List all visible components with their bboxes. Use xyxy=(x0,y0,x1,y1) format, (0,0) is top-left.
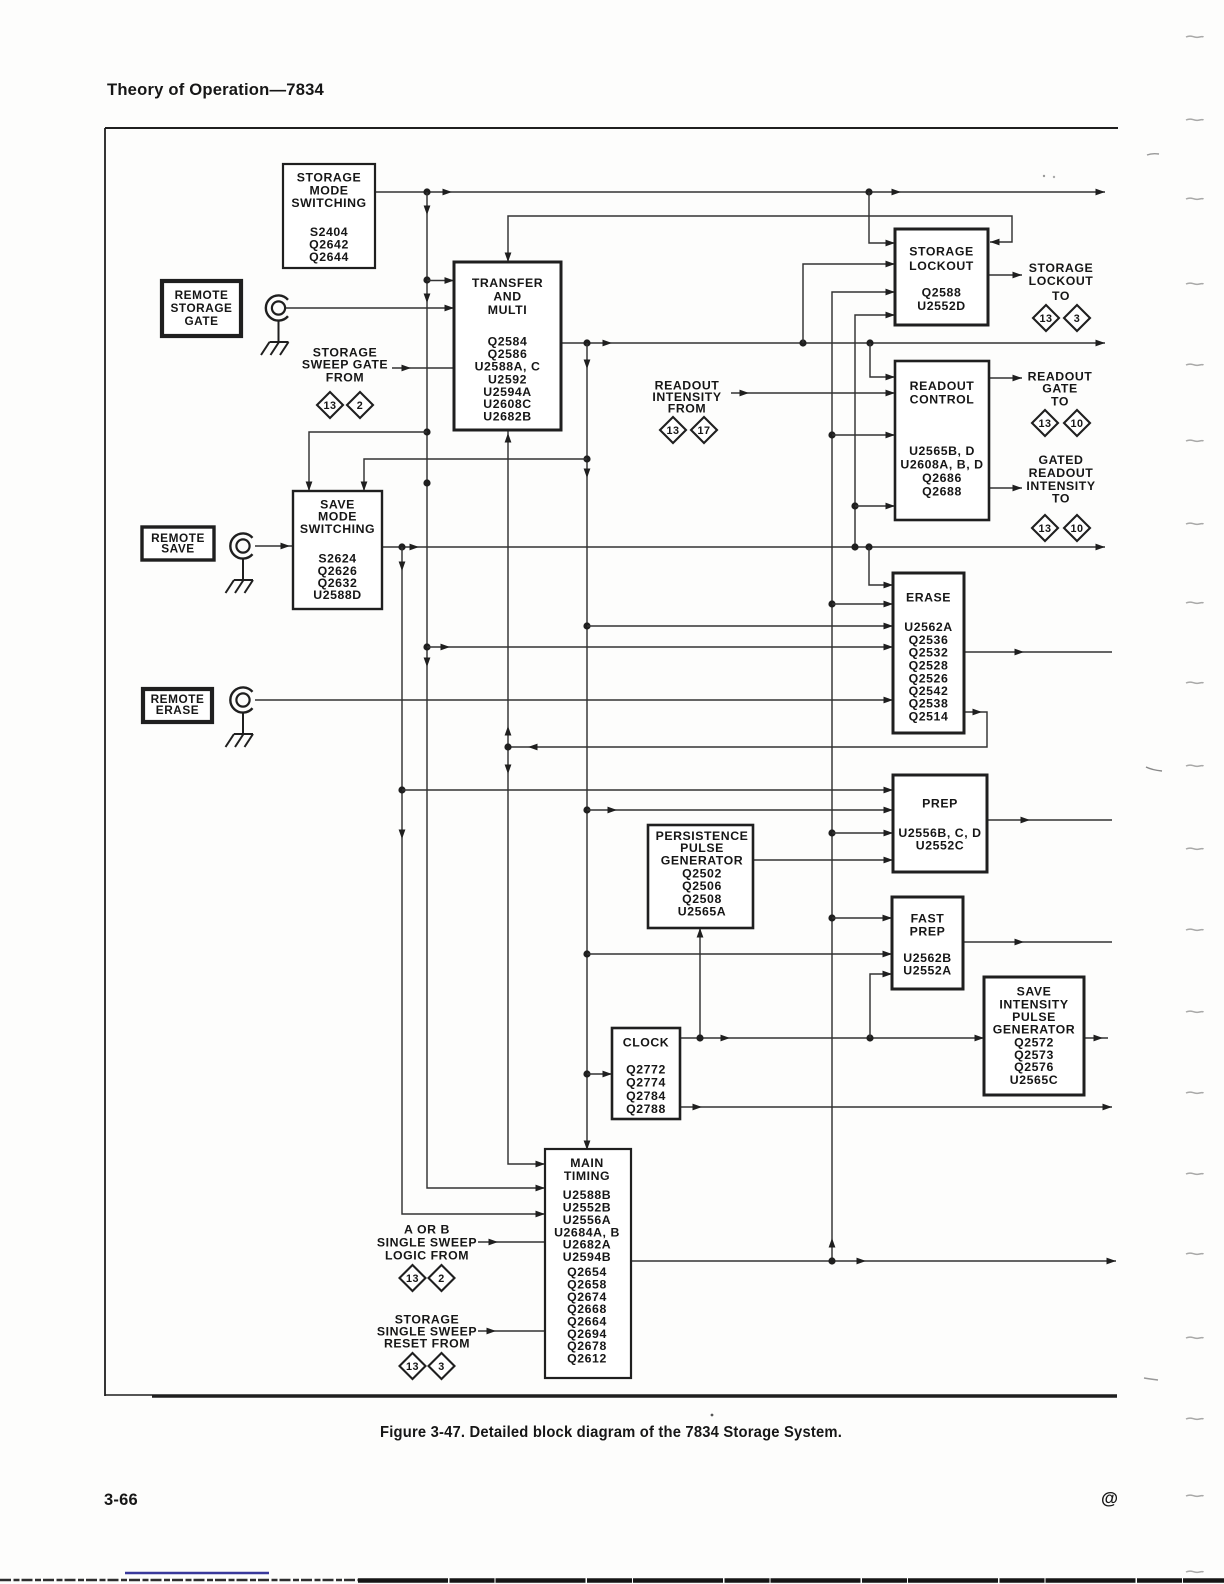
svg-text:SAVE: SAVE xyxy=(161,542,194,556)
wire READOUT CONTROL output to readout gate node xyxy=(989,375,1022,382)
svg-text:ERASE: ERASE xyxy=(906,590,951,604)
node READOUT INTENSITY FROM 13-17 xyxy=(652,378,721,443)
svg-text:SINGLE SWEEP: SINGLE SWEEP xyxy=(377,1235,477,1249)
wire branch x587 into CLOCK pin xyxy=(587,1071,612,1078)
wire wire y647 into ERASE pin xyxy=(427,644,893,651)
svg-text:Q2528: Q2528 xyxy=(909,658,949,672)
ground symbol for remote storage gate input xyxy=(261,342,289,355)
wire FAST PREP output y942 xyxy=(963,939,1112,946)
svg-text:FROM: FROM xyxy=(668,401,706,415)
svg-text:TIMING: TIMING xyxy=(564,1169,610,1183)
node A OR B SINGLE SWEEP LOGIC FROM 13-2 xyxy=(377,1222,477,1291)
wire branch x832 into ERASE pin y604 xyxy=(832,601,893,608)
wire branch x832 into PREP pin y833 xyxy=(832,830,893,837)
svg-text:TO: TO xyxy=(1051,395,1069,409)
wire vertical bus x508 from TRANSFER bottom down to MAIN TIMING pin y1164 xyxy=(504,430,545,1167)
wire PREP output y820 xyxy=(987,817,1112,824)
svg-text:2: 2 xyxy=(438,1273,445,1285)
svg-text:13: 13 xyxy=(1038,418,1051,430)
svg-text:10: 10 xyxy=(1070,523,1083,535)
svg-text:STORAGE: STORAGE xyxy=(909,245,973,259)
svg-text:GATED: GATED xyxy=(1039,453,1084,467)
svg-text:REMOTE: REMOTE xyxy=(175,288,229,302)
svg-text:LOGIC FROM: LOGIC FROM xyxy=(385,1248,469,1262)
svg-text:13: 13 xyxy=(406,1361,419,1373)
wire ERASE feedback loop to TRANSFER xyxy=(508,709,987,751)
connector remote erase input xyxy=(230,687,252,734)
block REMOTE SAVE xyxy=(142,527,214,560)
block CLOCK (Q2772 Q2774 Q2784 Q2788) xyxy=(612,1028,680,1119)
wire SAVE MODE SWITCHING output bus y547 xyxy=(382,543,1105,550)
svg-text:3-66: 3-66 xyxy=(104,1491,138,1509)
block ERASE (U2562A Q2536 Q2532 Q2528 Q2526 Q2542 Q2538 Q2514) xyxy=(893,573,964,733)
wire branch x700 from clock bus up into PERSISTENCE bottom xyxy=(697,928,704,1038)
svg-text:PREP: PREP xyxy=(910,925,946,939)
node STORAGE SWEEP GATE FROM 13-2 xyxy=(302,345,388,418)
wire link TRANSFER top to STORAGE LOCKOUT right xyxy=(505,216,1012,262)
svg-text:PREP: PREP xyxy=(922,797,958,811)
wire CLOCK output bus y1107 xyxy=(680,1104,1112,1111)
wire READOUT CONTROL output to gated readout intensity node xyxy=(989,485,1022,492)
svg-text:A OR B: A OR B xyxy=(404,1222,450,1236)
node STORAGE LOCKOUT TO 13-3 xyxy=(1029,261,1094,331)
wire PERSISTENCE output into PREP pin y860 xyxy=(753,857,893,864)
wire wire y790 into PREP pin xyxy=(402,787,893,794)
svg-text:CLOCK: CLOCK xyxy=(623,1036,669,1050)
wire wire y810 into PREP pin xyxy=(587,807,893,814)
block MAIN TIMING (U2588B U2552B U2556A U2684A,B U2682A U2594B Q2654 Q2658 Q2674 Q2668 Q2664 Q2694 Q2678 Q2612) xyxy=(545,1149,631,1378)
svg-text:13: 13 xyxy=(666,425,679,437)
figure caption xyxy=(380,1424,842,1441)
svg-text:Q2788: Q2788 xyxy=(626,1102,666,1116)
svg-text:READOUT: READOUT xyxy=(910,379,975,393)
node STORAGE SINGLE SWEEP RESET FROM 13-3 xyxy=(377,1312,477,1379)
svg-text:U2608A, B, D: U2608A, B, D xyxy=(900,458,983,472)
connector remote storage gate input xyxy=(266,295,288,342)
svg-text:U2565B, D: U2565B, D xyxy=(909,444,975,458)
wire vertical bus x402 down to MAIN TIMING pin y1214 xyxy=(398,547,545,1217)
svg-text:Q2688: Q2688 xyxy=(922,485,962,499)
svg-text:U2588D: U2588D xyxy=(313,588,361,602)
wire storage mode switching output bus xyxy=(375,188,1105,195)
block SAVE INTENSITY PULSE GENERATOR (Q2572 Q2573 Q2576 U2565C) xyxy=(984,977,1084,1095)
svg-text:TO: TO xyxy=(1052,492,1070,506)
node GATED READOUT INTENSITY TO 13-10 xyxy=(1026,453,1095,541)
wire branch from save bus into ERASE pin y585 xyxy=(869,547,893,588)
svg-text:U2565C: U2565C xyxy=(1010,1073,1058,1087)
svg-text:10: 10 xyxy=(1070,418,1083,430)
wire remote storage gate line xyxy=(286,305,454,312)
block REMOTE ERASE xyxy=(143,689,212,722)
svg-text:FAST: FAST xyxy=(911,912,945,926)
block PERSISTENCE PULSE GENERATOR (Q2502 Q2506 Q2508 U2565A) xyxy=(648,825,753,928)
block SAVE MODE SWITCHING (S2624 Q2626 Q2632 U2588D) xyxy=(293,491,382,609)
svg-text:FROM: FROM xyxy=(326,370,364,384)
block STORAGE LOCKOUT (Q2588 U2552D) xyxy=(895,229,988,325)
wire SAVE INTENSITY output xyxy=(1084,1035,1108,1042)
svg-text:U2682B: U2682B xyxy=(483,409,531,423)
svg-text:Q2686: Q2686 xyxy=(922,471,962,485)
svg-text:Figure 3-47. Detailed block d: Figure 3-47. Detailed block diagram of t… xyxy=(380,1424,842,1441)
svg-text:3: 3 xyxy=(438,1361,445,1373)
block PREP (U2556B,C,D U2552C) xyxy=(893,775,987,872)
svg-text:Q2612: Q2612 xyxy=(567,1352,607,1366)
svg-text:Theory of Operation—7834: Theory of Operation—7834 xyxy=(107,80,324,99)
ground symbol for remote save input xyxy=(226,580,254,593)
page header: Theory of Operation-7834 xyxy=(107,80,324,99)
svg-text:13: 13 xyxy=(1039,313,1052,325)
wire ERASE output y652 xyxy=(963,649,1112,656)
svg-text:GATE: GATE xyxy=(184,314,218,328)
wire TRANSFER output bus y343 xyxy=(561,339,1105,346)
svg-text:MAIN: MAIN xyxy=(570,1156,604,1170)
connector remote save input xyxy=(230,533,252,580)
svg-text:LOCKOUT: LOCKOUT xyxy=(909,259,974,273)
svg-text:U2552D: U2552D xyxy=(917,299,965,313)
block TRANSFER AND MULTI (Q2584 Q2586 U2588A,C U2592 U2594A U2608C U2682B) xyxy=(454,262,561,430)
wire branch from TRANSFER bus into READOUT CONTROL pin y377 xyxy=(870,343,895,380)
wire vertical bus x832 from MAIN TIMING output up to STORAGE LOCKOUT xyxy=(828,289,895,1261)
wire branch x832 into READOUT CONTROL pin y435 xyxy=(832,432,895,439)
wire vertical bus x427 from storage-mode bus down to main timing xyxy=(423,192,545,1191)
svg-text:Q2588: Q2588 xyxy=(922,285,962,299)
wire branch x803 up into STORAGE LOCKOUT pin y264 xyxy=(803,261,895,343)
svg-text:INTENSITY: INTENSITY xyxy=(1026,479,1095,493)
svg-text:S2404: S2404 xyxy=(310,225,348,239)
svg-text:@: @ xyxy=(1101,1488,1118,1508)
wire a or b single sweep logic line xyxy=(478,1239,545,1246)
svg-text:MULTI: MULTI xyxy=(488,303,527,317)
node READOUT GATE TO 13-10 xyxy=(1028,370,1093,437)
wire branch from bus y192 into STORAGE LOCKOUT pin y242 xyxy=(869,192,895,246)
svg-text:U2565A: U2565A xyxy=(678,905,726,919)
svg-text:17: 17 xyxy=(697,425,710,437)
svg-text:STORAGE: STORAGE xyxy=(171,301,233,315)
wire readout intensity input line xyxy=(731,390,895,397)
svg-text:U2552A: U2552A xyxy=(903,964,951,978)
wire storage single sweep reset line xyxy=(478,1328,545,1335)
wire MAIN TIMING output bus y1261 xyxy=(631,1257,1116,1264)
block STORAGE MODE SWITCHING (S2404 Q2642 Q2644) xyxy=(283,164,375,268)
svg-text:GENERATOR: GENERATOR xyxy=(993,1022,1075,1036)
block REMOTE STORAGE GATE xyxy=(162,281,241,336)
wire branch x870 up into FAST PREP pin y974 xyxy=(870,971,892,1038)
copyright mark xyxy=(1101,1488,1118,1508)
block FAST PREP (U2562B U2552A) xyxy=(892,897,963,989)
wire branch to SAVE MODE SWITCHING top pin x309 xyxy=(306,432,427,491)
block READOUT CONTROL (U2565B,D U2608A,B,D Q2686 Q2688) xyxy=(895,361,989,520)
svg-text:SWITCHING: SWITCHING xyxy=(291,196,366,210)
wire vertical bus x587 from TRANSFER output down to MAIN TIMING top xyxy=(583,343,590,1150)
svg-text:TRANSFER: TRANSFER xyxy=(472,276,543,290)
wire storage sweep gate input line xyxy=(392,365,454,372)
svg-text:13: 13 xyxy=(406,1273,419,1285)
wire branch to SAVE MODE SWITCHING top pin x364 xyxy=(361,459,587,491)
wire branch x855 into READOUT CONTROL pin y506 xyxy=(855,503,895,510)
svg-text:ERASE: ERASE xyxy=(156,703,199,717)
svg-text:Q2772: Q2772 xyxy=(626,1063,666,1077)
svg-text:TO: TO xyxy=(1052,289,1070,303)
ground symbol for remote erase input xyxy=(226,734,254,747)
svg-text:Q2784: Q2784 xyxy=(626,1089,666,1103)
svg-text:Q2644: Q2644 xyxy=(309,250,349,264)
svg-text:2: 2 xyxy=(357,400,364,412)
svg-text:U2594B: U2594B xyxy=(563,1250,611,1264)
svg-text:3: 3 xyxy=(1074,313,1081,325)
svg-text:AND: AND xyxy=(493,289,521,303)
wire remote save line xyxy=(255,543,293,550)
svg-text:13: 13 xyxy=(1038,523,1051,535)
wire STORAGE LOCKOUT output to node xyxy=(988,272,1022,279)
svg-text:Q2774: Q2774 xyxy=(626,1076,666,1090)
svg-text:SWITCHING: SWITCHING xyxy=(300,522,375,536)
svg-text:U2552C: U2552C xyxy=(916,838,964,852)
svg-text:RESET FROM: RESET FROM xyxy=(384,1336,470,1350)
wire wire y954 into FAST PREP pin xyxy=(587,951,892,958)
wire wire y626 into ERASE pin xyxy=(587,623,893,630)
svg-text:13: 13 xyxy=(323,400,336,412)
page number 3-66 xyxy=(104,1491,138,1509)
svg-text:LOCKOUT: LOCKOUT xyxy=(1029,274,1094,288)
wire vertical bus x855 from save bus up to STORAGE LOCKOUT pin y315 xyxy=(851,312,895,547)
svg-text:CONTROL: CONTROL xyxy=(910,392,975,406)
wire CLOCK output bus y1038 into SAVE INTENSITY PULSE GENERATOR xyxy=(680,1034,984,1041)
wire remote erase line y700 xyxy=(255,697,893,704)
svg-text:GATE: GATE xyxy=(1042,382,1077,396)
wire branch x832 into FAST PREP pin y918 xyxy=(832,915,892,922)
svg-text:Q2514: Q2514 xyxy=(909,709,949,723)
wire branch into TRANSFER pin at y281 xyxy=(427,277,454,284)
